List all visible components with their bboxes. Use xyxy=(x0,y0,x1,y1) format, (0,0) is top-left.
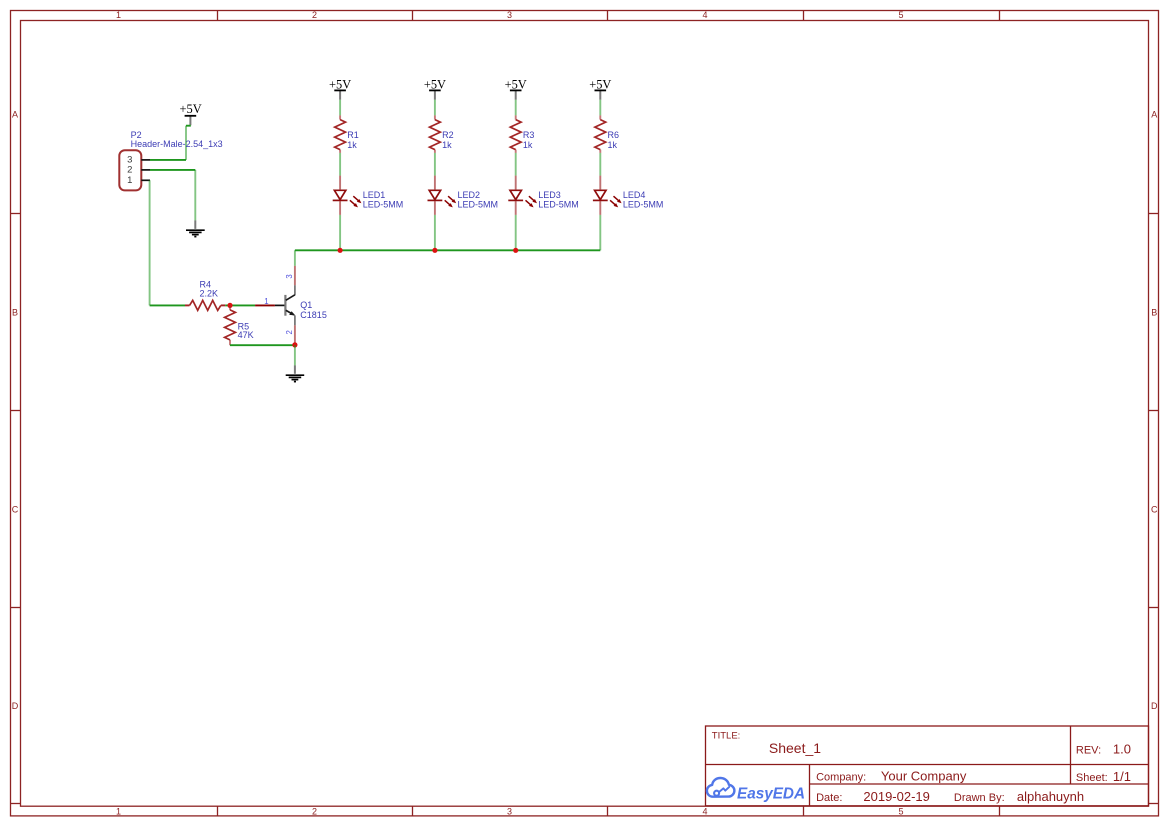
wire P2 pin2 to ground xyxy=(150,169,195,171)
svg-text:Sheet:: Sheet: xyxy=(1076,772,1108,784)
Q1 pin 2 (emitter) xyxy=(294,325,296,345)
svg-text:2.2K: 2.2K xyxy=(200,289,219,299)
power +5V symbol (R2 column) xyxy=(424,77,446,99)
wire R1 to LED1 xyxy=(339,153,341,176)
svg-text:REV:: REV: xyxy=(1076,744,1101,756)
svg-text:LED-5MM: LED-5MM xyxy=(458,200,499,210)
svg-text:4: 4 xyxy=(702,807,707,817)
svg-text:B: B xyxy=(1151,307,1157,317)
svg-text:TITLE:: TITLE: xyxy=(712,731,741,742)
svg-text:47K: 47K xyxy=(238,330,254,340)
svg-text:+5V: +5V xyxy=(505,77,527,91)
wire LED2 to bus xyxy=(434,215,436,250)
svg-text:Sheet_1: Sheet_1 xyxy=(769,740,821,756)
svg-text:EasyEDA: EasyEDA xyxy=(737,785,805,802)
LED LED2 LED-5MM xyxy=(428,176,499,215)
svg-text:R6: R6 xyxy=(608,130,620,140)
svg-text:D: D xyxy=(12,701,19,711)
P2 pin 1 xyxy=(141,179,150,181)
transistor Q1 C1815 xyxy=(255,266,327,345)
svg-text:+5V: +5V xyxy=(329,77,351,91)
P2 pin 3 xyxy=(141,159,150,161)
ground symbol (P2) xyxy=(186,220,205,236)
svg-text:2: 2 xyxy=(127,164,132,175)
wire +5V to R6 xyxy=(599,100,601,116)
svg-text:Drawn By:: Drawn By: xyxy=(954,792,1005,804)
node junction LED2/bus xyxy=(432,248,437,253)
svg-text:2: 2 xyxy=(312,10,317,20)
wire R5 to Q1 emitter node xyxy=(230,344,295,346)
svg-text:Date:: Date: xyxy=(816,792,842,804)
svg-text:R1: R1 xyxy=(347,130,359,140)
node junction R4/R5 xyxy=(227,303,232,308)
wire +5V to R1 xyxy=(339,100,341,116)
power +5V symbol (P2) xyxy=(180,102,202,125)
svg-text:2019-02-19: 2019-02-19 xyxy=(863,789,930,804)
svg-text:Your Company: Your Company xyxy=(881,768,967,783)
node junction LED1/bus xyxy=(338,248,343,253)
wire Q1 emitter to ground xyxy=(294,345,296,366)
wire LED1 to bus xyxy=(339,215,341,250)
wire P2 pin1 to R4 xyxy=(149,180,151,305)
resistor R1 1k xyxy=(335,115,359,152)
wire R3 to LED3 xyxy=(515,153,517,176)
svg-text:3: 3 xyxy=(507,10,512,20)
svg-text:LED2: LED2 xyxy=(458,190,481,200)
svg-text:LED-5MM: LED-5MM xyxy=(623,200,664,210)
svg-text:1: 1 xyxy=(127,175,132,186)
svg-text:1: 1 xyxy=(116,807,121,817)
svg-text:3: 3 xyxy=(285,274,294,278)
title block xyxy=(706,726,1149,806)
svg-text:1: 1 xyxy=(116,10,121,20)
resistor R6 1k xyxy=(595,115,619,152)
svg-text:Q1: Q1 xyxy=(300,300,312,310)
EasyEDA logo xyxy=(707,778,805,802)
LED LED1 LED-5MM xyxy=(333,176,404,215)
LED LED4 LED-5MM xyxy=(593,176,664,215)
svg-text:C: C xyxy=(1151,504,1158,514)
power +5V symbol (R6 column) xyxy=(589,77,611,99)
svg-text:LED1: LED1 xyxy=(363,190,386,200)
svg-text:Header-Male-2.54_1x3: Header-Male-2.54_1x3 xyxy=(131,139,223,149)
svg-text:C: C xyxy=(12,504,19,514)
wire +5V to P2 pin3 xyxy=(186,125,191,127)
resistor R5 47K xyxy=(225,305,254,345)
P2 labels xyxy=(131,130,223,149)
node junction LED3/bus xyxy=(513,248,518,253)
svg-text:3: 3 xyxy=(507,807,512,817)
svg-text:LED-5MM: LED-5MM xyxy=(363,200,404,210)
wire Q1 collector to LED bus xyxy=(294,250,296,265)
svg-text:1k: 1k xyxy=(442,140,452,150)
resistor R4 2.2K xyxy=(185,280,225,311)
svg-text:LED4: LED4 xyxy=(623,190,646,200)
svg-text:D: D xyxy=(1151,701,1158,711)
svg-text:+5V: +5V xyxy=(424,77,446,91)
connector P2 Header-Male-2.54_1x3 xyxy=(119,150,141,190)
svg-text:A: A xyxy=(12,110,18,120)
wire R4 to Q1 base xyxy=(225,304,255,306)
P2 pin 2 xyxy=(141,169,150,171)
svg-text:5: 5 xyxy=(898,807,903,817)
wire LED cathode bus xyxy=(295,249,600,251)
LED LED3 LED-5MM xyxy=(508,176,579,215)
svg-text:2: 2 xyxy=(312,807,317,817)
wire LED4 to bus xyxy=(599,215,601,250)
svg-text:alphahuynh: alphahuynh xyxy=(1017,789,1084,804)
svg-text:+5V: +5V xyxy=(180,102,202,116)
svg-text:1k: 1k xyxy=(347,140,357,150)
title block text xyxy=(712,731,1131,805)
svg-text:LED-5MM: LED-5MM xyxy=(538,200,579,210)
svg-text:A: A xyxy=(1151,110,1157,120)
svg-text:B: B xyxy=(12,307,18,317)
svg-text:R2: R2 xyxy=(442,130,454,140)
wire R6 to LED4 xyxy=(599,153,601,176)
svg-text:1.0: 1.0 xyxy=(1113,741,1131,756)
svg-text:Company:: Company: xyxy=(816,771,866,783)
svg-text:5: 5 xyxy=(898,10,903,20)
svg-text:C1815: C1815 xyxy=(300,310,327,320)
wire +5V to R3 xyxy=(515,100,517,116)
wire +5V to R2 xyxy=(434,100,436,116)
svg-text:1/1: 1/1 xyxy=(1113,769,1131,784)
node junction Q1 emitter / R5 xyxy=(292,342,297,347)
ground symbol (Q1) xyxy=(286,365,305,381)
power +5V symbol (R3 column) xyxy=(505,77,527,99)
svg-text:1k: 1k xyxy=(608,140,618,150)
svg-text:+5V: +5V xyxy=(589,77,611,91)
power +5V symbol (R1 column) xyxy=(329,77,351,99)
svg-text:4: 4 xyxy=(702,10,707,20)
resistor R3 1k xyxy=(510,115,534,152)
resistor R2 1k xyxy=(430,115,454,152)
svg-text:LED3: LED3 xyxy=(538,190,561,200)
svg-text:2: 2 xyxy=(285,330,294,334)
svg-text:R3: R3 xyxy=(523,130,535,140)
Q1 pin 3 (collector) xyxy=(294,266,296,285)
wire LED3 to bus xyxy=(515,215,517,250)
svg-text:1k: 1k xyxy=(523,140,533,150)
svg-text:1: 1 xyxy=(264,297,268,306)
wire R2 to LED2 xyxy=(434,153,436,176)
